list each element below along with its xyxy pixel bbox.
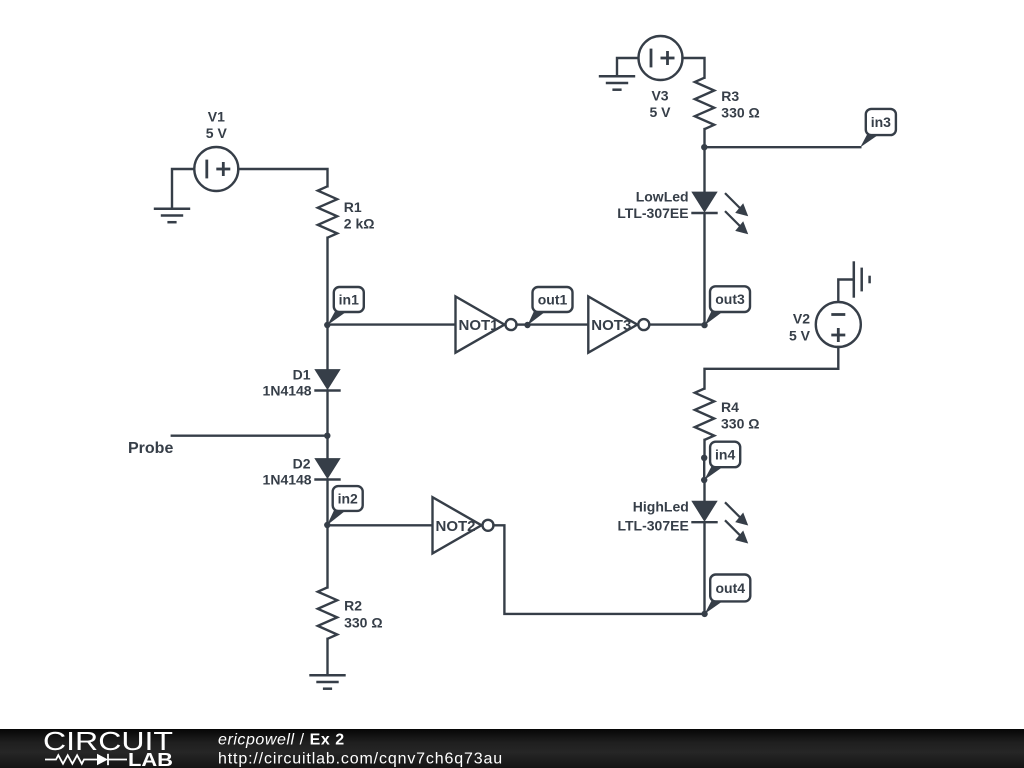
svg-text:HighLed: HighLed xyxy=(633,499,689,515)
footer url xyxy=(218,751,503,768)
svg-text:NOT1: NOT1 xyxy=(459,317,499,334)
junction out4 xyxy=(701,611,707,617)
wire R1 to in1 xyxy=(326,238,328,325)
CircuitLab logo wire with resistor and diode xyxy=(45,754,127,765)
svg-text:out1: out1 xyxy=(538,292,568,308)
label D1 value xyxy=(263,383,312,399)
wire in1 to NOT1 xyxy=(328,323,456,325)
footer title ericpowell / Ex 2 xyxy=(218,732,345,749)
LED HighLed light arrows xyxy=(725,502,748,543)
junction R3 in3 xyxy=(701,144,707,150)
CircuitLab logo text LAB xyxy=(128,750,173,768)
label HighLed value xyxy=(617,517,688,533)
ground near V3 xyxy=(599,76,635,89)
wire D2 to in2 xyxy=(326,480,328,526)
wire in2 to R2 xyxy=(326,525,328,587)
label LowLed name xyxy=(636,188,689,204)
label V2 name xyxy=(793,311,810,327)
wire in3 xyxy=(705,146,861,148)
svg-text:V2: V2 xyxy=(793,311,810,327)
label HighLed name xyxy=(633,499,689,515)
svg-text:LowLed: LowLed xyxy=(636,188,689,204)
svg-text:V3: V3 xyxy=(651,88,668,104)
svg-text:in3: in3 xyxy=(871,114,891,130)
wire in4 to HighLed xyxy=(703,480,705,501)
inverter NOT3 xyxy=(588,297,649,353)
junction in4 xyxy=(701,477,707,483)
wire out1 to NOT3 xyxy=(528,323,589,325)
label R1 name xyxy=(344,199,362,215)
wire NOT2 output to out4 rail xyxy=(494,525,705,614)
voltage source V3 xyxy=(639,36,683,80)
wire V1 left to ground xyxy=(172,169,194,209)
node out4 flag xyxy=(705,575,751,614)
node out3 flag xyxy=(705,286,751,325)
wire V2 to R4 xyxy=(705,347,839,389)
svg-text:LTL-307EE: LTL-307EE xyxy=(617,205,688,221)
junction in1 xyxy=(324,322,330,328)
svg-text:5 V: 5 V xyxy=(206,125,228,141)
svg-text:in2: in2 xyxy=(338,491,358,507)
svg-text:D1: D1 xyxy=(293,367,311,383)
label R4 name xyxy=(721,399,739,415)
wire in3 junction to LowLed xyxy=(703,147,705,192)
svg-text:1N4148: 1N4148 xyxy=(263,472,312,488)
svg-text:ericpowell / Ex 2: ericpowell / Ex 2 xyxy=(218,732,345,749)
label Probe xyxy=(128,440,173,457)
svg-text:NOT3: NOT3 xyxy=(591,317,631,334)
label R2 name xyxy=(344,598,362,614)
label V3 name xyxy=(651,88,668,104)
svg-text:R4: R4 xyxy=(721,399,739,415)
ground near V2 xyxy=(854,261,870,297)
resistor R2 xyxy=(318,587,337,638)
junction out3 xyxy=(701,322,707,328)
ground near R2 xyxy=(309,675,345,688)
svg-text:1N4148: 1N4148 xyxy=(263,383,312,399)
label R3 name xyxy=(721,88,739,104)
inverter NOT1 xyxy=(456,297,517,353)
LED HighLed xyxy=(691,501,717,522)
label V2 value xyxy=(789,328,811,344)
node out1 flag xyxy=(528,287,573,325)
ground near V1 xyxy=(154,209,190,222)
footer bar xyxy=(0,729,1024,768)
svg-text:NOT2: NOT2 xyxy=(436,518,476,535)
wire V3 to R3 xyxy=(683,58,705,78)
node in2 flag xyxy=(327,486,363,525)
svg-text:330 Ω: 330 Ω xyxy=(721,415,759,431)
svg-text:330 Ω: 330 Ω xyxy=(344,615,382,631)
diode D1 xyxy=(314,370,340,391)
wire R3 to in3 junction xyxy=(703,129,705,147)
wire Probe xyxy=(172,435,328,437)
wire V2 top to ground xyxy=(838,280,854,303)
resistor R4 xyxy=(695,389,714,440)
resistor R3 xyxy=(695,78,714,129)
svg-text:330 Ω: 330 Ω xyxy=(721,104,759,120)
label V1 name xyxy=(208,109,225,125)
wire in2 to NOT2 xyxy=(328,524,433,526)
node in3 flag xyxy=(860,109,896,147)
wire R4 to in4 xyxy=(703,440,705,458)
svg-text:5 V: 5 V xyxy=(649,104,671,120)
svg-text:http://circuitlab.com/cqnv7ch6: http://circuitlab.com/cqnv7ch6q73au xyxy=(218,751,503,768)
resistor R1 xyxy=(318,186,337,237)
wire NOT3 to out3 xyxy=(649,323,704,325)
svg-text:out3: out3 xyxy=(715,291,745,307)
label R2 value xyxy=(344,615,382,631)
junction probe node xyxy=(324,433,330,439)
label LowLed value xyxy=(617,205,688,221)
svg-text:out4: out4 xyxy=(715,580,745,596)
node in4 flag xyxy=(704,442,740,480)
svg-text:in1: in1 xyxy=(339,292,359,308)
label R4 value xyxy=(721,415,759,431)
junction in2 xyxy=(324,522,330,528)
svg-text:R2: R2 xyxy=(344,598,362,614)
wire R2 to ground xyxy=(326,639,328,676)
voltage source V2 xyxy=(816,302,861,347)
wire D1 to probe node xyxy=(326,391,328,436)
svg-text:D2: D2 xyxy=(293,455,311,471)
inverter NOT2 xyxy=(433,497,494,553)
LED LowLed light arrows xyxy=(725,193,748,234)
svg-text:R1: R1 xyxy=(344,199,362,215)
label R3 value xyxy=(721,104,759,120)
svg-text:LAB: LAB xyxy=(128,750,173,768)
svg-text:Probe: Probe xyxy=(128,440,173,457)
wire NOT1 to out1 xyxy=(517,323,528,325)
diode D2 xyxy=(314,459,340,480)
junction R4 bottom xyxy=(701,455,707,461)
wire V3 left to ground xyxy=(617,58,639,76)
LED LowLed xyxy=(691,192,717,213)
svg-text:5 V: 5 V xyxy=(789,328,811,344)
label D1 name xyxy=(293,367,311,383)
wire probe node to D2 xyxy=(326,436,328,459)
wire in1 to D1 xyxy=(326,325,328,370)
node in1 flag xyxy=(327,287,364,325)
voltage source V1 xyxy=(194,147,238,191)
wire LowLed to out3 xyxy=(703,213,705,324)
svg-text:R3: R3 xyxy=(721,88,739,104)
CircuitLab logo text CIRCUIT xyxy=(43,726,173,756)
svg-text:V1: V1 xyxy=(208,109,225,125)
label D2 name xyxy=(293,455,311,471)
label D2 value xyxy=(263,472,312,488)
wire V1 to R1 xyxy=(238,169,327,186)
junction out1 xyxy=(524,322,530,328)
svg-text:in4: in4 xyxy=(715,446,735,462)
svg-text:2 kΩ: 2 kΩ xyxy=(344,216,375,232)
label V1 value xyxy=(206,125,228,141)
wire HighLed to out4 xyxy=(703,523,705,614)
wire in4 segment xyxy=(703,458,705,480)
label R1 value xyxy=(344,216,375,232)
label V3 value xyxy=(649,104,671,120)
svg-text:LTL-307EE: LTL-307EE xyxy=(617,517,688,533)
